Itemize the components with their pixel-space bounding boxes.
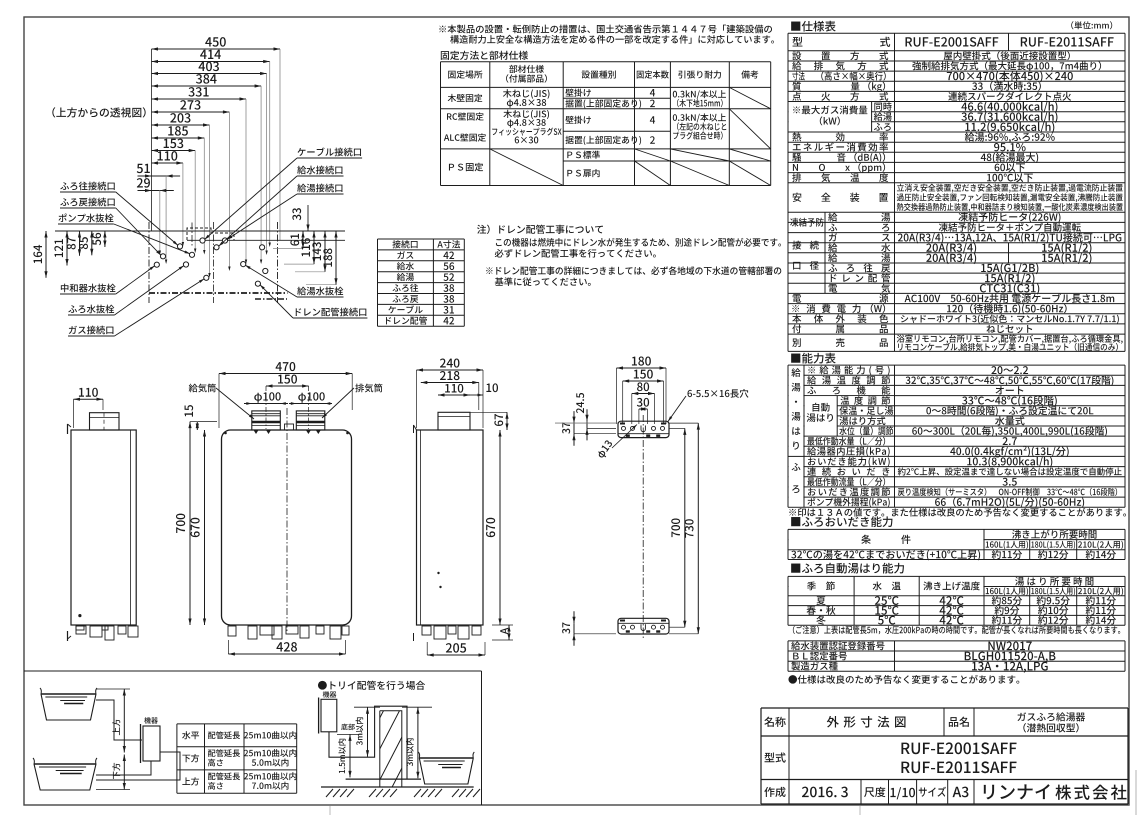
side view right (240 view) [417, 430, 484, 625]
installation area sub-box [24, 670, 482, 672]
rear view bottom bracket [618, 618, 669, 634]
fixing table [441, 61, 771, 63]
rear view center line [642, 415, 644, 640]
piping length table [177, 723, 297, 725]
dim 67 [506, 412, 508, 430]
spec rows 電源ほか [793, 294, 889, 303]
install diagram upper tub [40, 688, 97, 694]
dim 428 [228, 653, 345, 655]
spec table title 仕様表 [791, 21, 836, 32]
label 排気筒 with leader [355, 384, 382, 393]
torii piping lines [329, 706, 407, 779]
capacity table title 能力表 [791, 353, 836, 364]
front view label 給気筒 with leader [189, 384, 216, 393]
fixing table title 固定方法と部材仕様 [441, 51, 528, 60]
top view title [52, 107, 145, 117]
rear view 24.5 dim [586, 421, 588, 428]
rear view slot label [687, 389, 748, 398]
left vertical dims 164 121 87 85 56 [45, 231, 47, 278]
top view center line [212, 222, 214, 303]
rear view φ13 label [596, 439, 614, 459]
top view exhaust adapter dashed outline [187, 228, 234, 240]
install diagram vertical dims 上方 下方 [123, 689, 125, 753]
certification table [788, 640, 1125, 642]
spec row 別売品 [792, 338, 888, 347]
spec table 仕様表 grid and content [788, 32, 1125, 34]
title block [761, 707, 1128, 709]
spec row 型式 [793, 37, 803, 47]
front view [222, 430, 352, 625]
install diagram heater unit [143, 726, 160, 761]
right port labels with leaders [298, 147, 362, 156]
left port labels with leaders [60, 182, 114, 191]
spec row 最大ガス消費量 nested labels [789, 102, 871, 131]
right view bottom fittings + 205 dim [422, 626, 431, 635]
rear view 37 dims [573, 423, 575, 434]
torii dims [367, 707, 369, 757]
capacity footnote [789, 508, 1126, 517]
front view bottom fittings [228, 626, 236, 636]
scan artifact ticks [329, 806, 331, 815]
torii doorway with hatch [380, 711, 402, 787]
torii heater unit [321, 699, 337, 732]
front view intake/exhaust pipes [252, 411, 280, 430]
right view dims top [417, 369, 484, 371]
capacity main rows [808, 366, 889, 376]
ground hatches [326, 789, 333, 797]
installation regulation note [439, 25, 772, 34]
spec rows 凍結予防 [824, 212, 826, 232]
side view bottom fittings [76, 626, 86, 634]
front view top black marks [254, 431, 258, 435]
drain piping note [477, 225, 603, 234]
reheat table title ふろおいだき能力 [791, 516, 892, 527]
fixing table row RC/ALC [447, 112, 484, 120]
top view bottom secondary dash line [255, 298, 287, 300]
rear view dims [617, 367, 667, 369]
right vertical dims 33 61 116 143 188 [307, 205, 309, 231]
fixing table row 木壁固定 [448, 94, 483, 102]
dim 110 side view [74, 398, 104, 400]
fixing table diagonal slashes [729, 87, 770, 108]
top view dimension stack [152, 48, 281, 50]
capacity 自動湯はり sub block [805, 396, 894, 435]
dim A right view [500, 628, 508, 635]
fixing table row PS固定 [449, 163, 483, 172]
top view secondary center dash [191, 223, 193, 248]
connection size table A寸法 [378, 238, 465, 240]
rear view top bracket [618, 421, 669, 437]
dim 15 front view [196, 422, 198, 430]
torii tub [418, 752, 474, 758]
torii piping title [318, 681, 425, 690]
small dims 51 and 29 [152, 175, 167, 177]
spec row 安全装置 [793, 193, 889, 202]
front view left vertical dims 700 670 [189, 422, 191, 625]
fill table note [793, 626, 1120, 635]
top view unit outline dash-dot [148, 222, 150, 303]
connection port circles [200, 238, 205, 243]
right view 670 dim [499, 430, 501, 625]
spec change note [788, 675, 1019, 684]
torii ground lines [346, 778, 421, 780]
company name リンナイ株式会社 [984, 784, 1050, 799]
fill table title ふろ自動湯はり能力 [791, 563, 904, 574]
rear view 700 730 dims [684, 428, 686, 627]
install diagram lower tub [33, 758, 97, 764]
side view left (110 view) [71, 430, 136, 625]
spec rows 接続口径 [824, 233, 826, 294]
front view center line [286, 408, 288, 632]
install diagram piping [96, 700, 142, 740]
front view dims [219, 373, 352, 375]
capacity group labels vertical [791, 368, 800, 377]
